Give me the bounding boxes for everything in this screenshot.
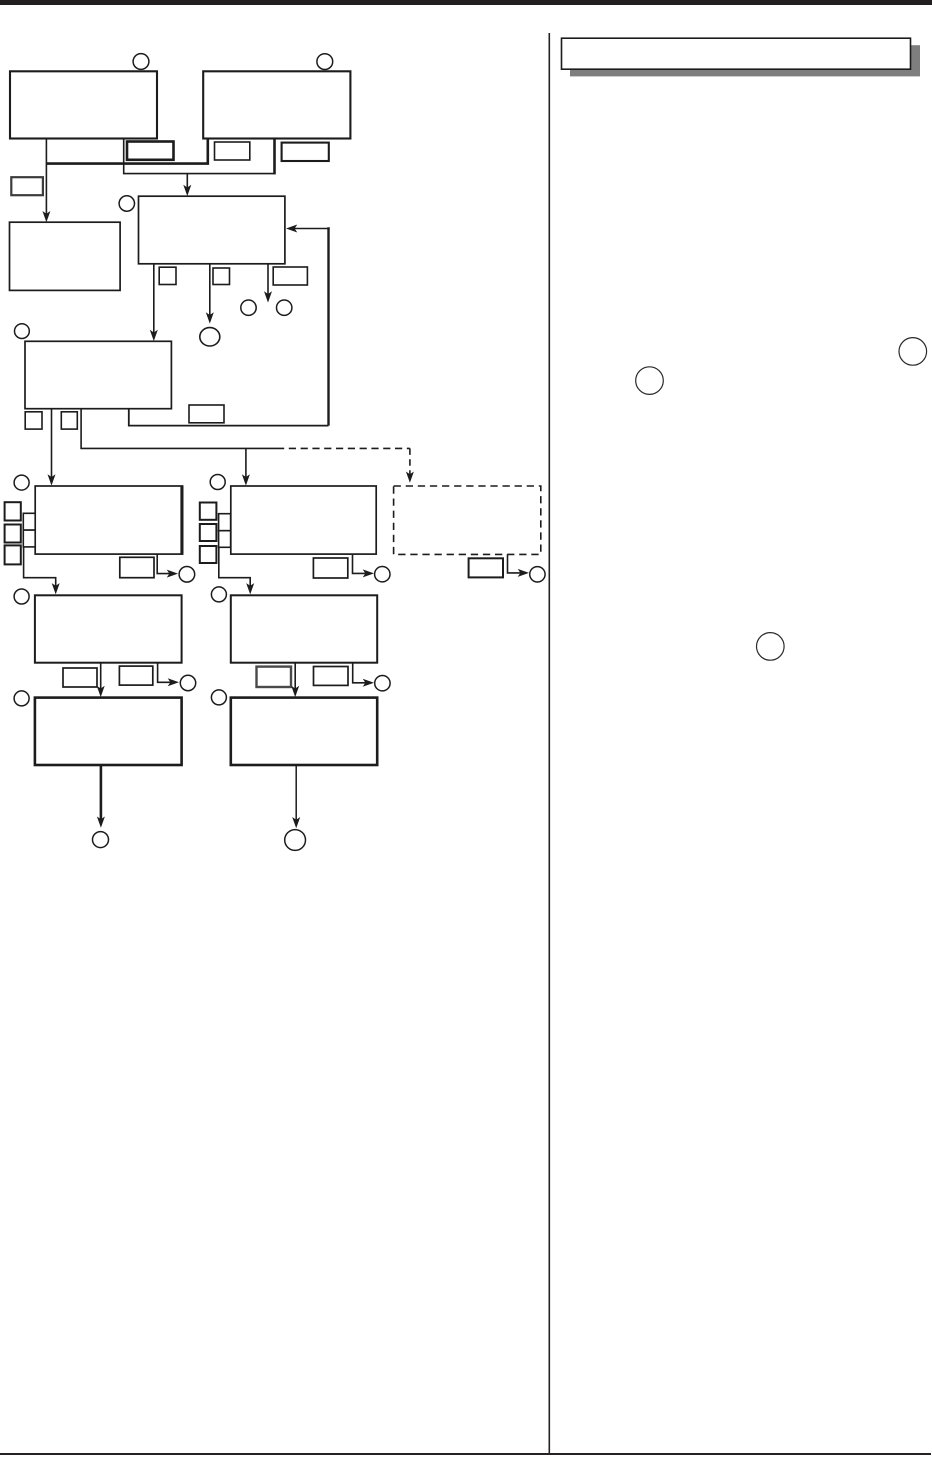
circle step-14 [180, 675, 195, 690]
wire dashed arrow into dashed box [406, 448, 414, 482]
wire arrow row2-center to row3 box [150, 264, 158, 341]
label rect P1 [63, 668, 97, 687]
circle right-1 [899, 338, 927, 366]
label rect Q2 [314, 667, 349, 686]
circle terminal-left [93, 832, 109, 848]
box row4-left [35, 486, 182, 554]
box row6-left (thick) [35, 698, 182, 765]
box row4-left thick right edge [180, 486, 183, 554]
tab T1 [23, 513, 35, 530]
wire bus row1 thick [46, 138, 207, 163]
port square L1 [200, 503, 217, 520]
box row1-right [203, 71, 350, 138]
box row5-right [231, 595, 377, 662]
port square K1 [5, 502, 21, 520]
circle step-11 [530, 567, 545, 582]
port square K2 [5, 525, 21, 543]
tab square J [61, 412, 77, 429]
label rect O [469, 558, 503, 577]
tab square E [159, 267, 176, 284]
wire bus row1 thin [124, 139, 275, 174]
circle step-12 [14, 589, 29, 604]
label rect C [282, 143, 329, 161]
label rect G [273, 267, 307, 285]
bottom rule line [0, 1453, 931, 1455]
label rect M [120, 557, 154, 577]
circle right-3 [757, 633, 785, 661]
circle step-15 [375, 676, 390, 691]
box row6-right (thick) [231, 698, 377, 765]
wire arrow row3 to row4-left box [48, 409, 56, 486]
box row5-left [35, 595, 182, 662]
wire arrow into box row2-left [42, 138, 50, 222]
wire arrow row5-right to circle [353, 663, 374, 687]
circle step-13 [211, 587, 226, 602]
wire arrow into box row2-center [183, 174, 191, 197]
label rect A (thick) [127, 142, 174, 160]
wire arrow into row4-mid box [242, 448, 250, 485]
wire arrow row5-left to row6-left [97, 663, 105, 697]
label rect N [313, 558, 347, 578]
box row2-left [10, 222, 121, 290]
wire arrow row2-center short drop [264, 264, 272, 303]
circle step-2 [317, 54, 333, 70]
box row3 [25, 341, 171, 408]
tab square I [25, 412, 42, 429]
header box [562, 38, 911, 69]
circle step-16 [14, 691, 29, 706]
wire arrow row4-left to circle [157, 554, 178, 578]
ellipse terminal [200, 328, 220, 346]
circle step-4 [241, 300, 256, 315]
label rect H on feedback [189, 405, 224, 423]
header shadow [570, 45, 920, 76]
tab square F [213, 268, 230, 285]
wire arrow row5-right to row6-right [291, 663, 299, 697]
port square K3 [5, 545, 21, 564]
wire arrow dashed box to circle [508, 554, 530, 577]
circle step-17 [211, 690, 226, 705]
wire branch run dashed [277, 447, 410, 449]
label rect Q1 (thick) [257, 667, 292, 687]
wire arrow row6-left terminal (thick) [97, 765, 105, 828]
wire arrow row4-mid to circle [353, 554, 375, 577]
wire arrow row6-right terminal [292, 765, 300, 828]
wire row1-right drop thick [273, 138, 276, 174]
port square L3 [200, 546, 217, 563]
tab T2 [23, 530, 35, 547]
wire row4-mid left exit to row5-right [219, 547, 254, 594]
column divider line [548, 33, 550, 1454]
wire row4-left left exit to row5-left [24, 547, 60, 594]
wire arrow row5-left to circle [158, 663, 179, 687]
circle step-7 [14, 475, 29, 490]
port square L2 [200, 524, 217, 541]
wire row3 branch run solid [81, 409, 277, 448]
box row1-left [10, 71, 157, 138]
dashed box row4-right [394, 486, 541, 554]
tab U1 [219, 514, 231, 531]
circle step-10 [375, 567, 390, 582]
circle terminal-right [285, 830, 306, 851]
circle step-9 [179, 567, 195, 583]
feedback wire lower run [129, 409, 329, 426]
label rect B [215, 142, 250, 160]
label rect P2 [119, 666, 152, 685]
top black bar [0, 0, 932, 5]
box row2-center [139, 196, 285, 264]
feedback wire into row2-center [286, 225, 330, 426]
circle right-2 [636, 367, 664, 395]
circle step-8 [210, 475, 225, 490]
tab U2 [219, 531, 231, 548]
circle step-5 [277, 300, 292, 315]
label rect D [11, 177, 43, 195]
circle step-1 [133, 54, 149, 70]
wire arrow row2-center to ellipse [206, 264, 214, 324]
circle step-3 [119, 196, 134, 211]
circle step-6 [15, 324, 30, 339]
box row4-mid [231, 486, 376, 554]
